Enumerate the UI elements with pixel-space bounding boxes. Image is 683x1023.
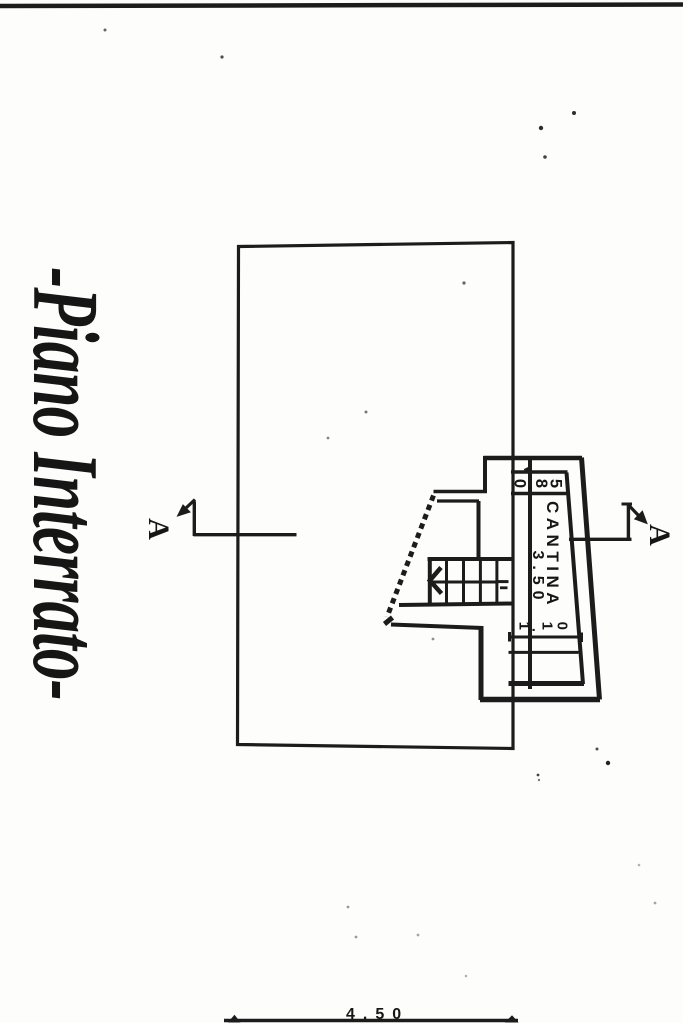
annex upper-left vertical <box>483 456 487 492</box>
1.10 dim tick left <box>508 632 511 642</box>
section marker right vertical <box>627 504 630 541</box>
1.10 dimension line <box>510 636 582 639</box>
ramp wall top line <box>434 490 488 494</box>
section arrow right shaft <box>629 505 640 516</box>
stairs top line <box>428 557 513 561</box>
stair riser 2 <box>445 559 448 604</box>
svg-text:3.50: 3.50 <box>529 550 546 605</box>
svg-text:A: A <box>643 524 676 546</box>
svg-text:0: 0 <box>554 622 571 630</box>
building outline (main rectangle) <box>238 243 514 749</box>
section marker left vertical <box>193 502 196 537</box>
annex top edge <box>484 456 583 461</box>
annex lower-left vertical <box>479 626 484 700</box>
scan speckles <box>104 29 657 978</box>
tick above 0.85 box <box>525 467 532 471</box>
section arrow right head <box>635 511 647 523</box>
cantina right wall inner line (slanted) <box>567 473 584 685</box>
0.85 box bottom <box>511 492 568 496</box>
0.85 box top <box>511 470 568 474</box>
dashed ramp edge <box>387 496 434 618</box>
top border line <box>0 5 683 7</box>
annex outer right edge (slanted) <box>582 458 600 700</box>
svg-text:-Piano Interrato-: -Piano Interrato- <box>13 267 118 700</box>
stair riser 5 <box>495 559 498 604</box>
cantina cross line <box>509 651 579 654</box>
wall vertical above stairs <box>477 501 481 560</box>
section arrow left shaft <box>186 500 195 509</box>
section line right <box>569 538 632 541</box>
stair direction arrow <box>430 568 442 594</box>
cantina left wall inner line <box>528 459 532 689</box>
bottom dimension line 4.50 <box>224 1019 518 1023</box>
annex bottom edge <box>480 697 600 703</box>
stair arrow tail mark lower <box>500 586 508 589</box>
section marker right top cap <box>622 503 633 506</box>
cantina room bottom line <box>509 681 585 686</box>
annex lower-left horizontal <box>391 625 483 629</box>
svg-text:A: A <box>142 518 175 540</box>
bottom dim tick right <box>506 1016 518 1022</box>
stairs middle line <box>430 581 498 584</box>
stair riser 1 <box>428 559 432 605</box>
svg-text:1: 1 <box>539 622 556 630</box>
stair riser 3 <box>462 559 465 604</box>
stairs bottom line <box>399 604 513 606</box>
ramp end tick <box>385 618 393 625</box>
ramp wall bottom line <box>437 499 479 502</box>
dim 0.85 rotated glyphs <box>511 479 565 490</box>
bottom dim tick left <box>229 1016 240 1023</box>
section line left <box>194 533 297 536</box>
stair arrow tail mark upper <box>498 580 509 583</box>
svg-text:5: 5 <box>547 479 565 488</box>
dim 1.10 rotated glyphs <box>516 622 571 632</box>
svg-text:4.50: 4.50 <box>346 1006 409 1023</box>
stair riser 4 <box>479 559 482 604</box>
section arrow left head <box>178 505 191 516</box>
1.10 dim tick right <box>580 633 583 643</box>
